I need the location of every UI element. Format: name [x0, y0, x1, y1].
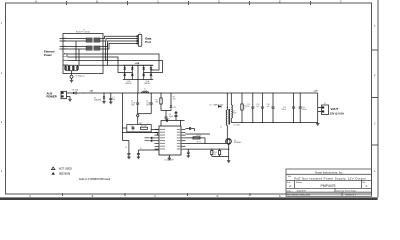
svg-text:C6: C6: [125, 147, 127, 149]
svg-text:C12: C12: [283, 107, 286, 109]
svg-text:12V @ 0.5A: 12V @ 0.5A: [330, 111, 344, 115]
svg-text:+VA: +VA: [89, 89, 93, 92]
svg-text:NOT USED: NOT USED: [59, 168, 72, 171]
svg-text:1.0uF: 1.0uF: [146, 103, 150, 105]
svg-text:C: C: [157, 1, 159, 4]
svg-text:Rev:: Rev:: [362, 182, 366, 184]
svg-text:Number:: Number:: [296, 181, 303, 184]
svg-text:C13: C13: [302, 107, 305, 109]
svg-text:D: D: [218, 1, 220, 4]
svg-text:Si4850EY: Si4850EY: [234, 142, 242, 144]
svg-text:10uH: 10uH: [143, 90, 148, 92]
svg-text:T2: T2: [220, 127, 222, 129]
svg-text:C7: C7: [140, 148, 142, 150]
svg-text:POWER: POWER: [47, 95, 57, 99]
svg-text:TD-: TD-: [64, 41, 67, 43]
svg-text:FB1: FB1: [139, 123, 142, 125]
svg-text:J1: J1: [139, 32, 141, 34]
svg-text:Sheet 1 of 1: Sheet 1 of 1: [346, 193, 356, 196]
svg-text:470pF: 470pF: [232, 112, 236, 114]
svg-text:39k: 39k: [156, 102, 159, 104]
svg-text:1.0: 1.0: [214, 154, 216, 156]
svg-text:D7: D7: [94, 97, 96, 99]
svg-text:1uF: 1uF: [267, 106, 270, 108]
svg-text:SEE BOM: SEE BOM: [59, 173, 70, 176]
svg-text:Port: Port: [145, 40, 151, 44]
svg-text:RD-: RD-: [64, 49, 67, 51]
svg-text:PoE Non-Isolated Power Supply,: PoE Non-Isolated Power Supply, 12V Outpu…: [294, 176, 366, 180]
svg-text:H2019-PT#-G54321: H2019-PT#-G54321: [76, 32, 90, 34]
svg-text:VOUT: VOUT: [331, 107, 339, 111]
svg-text:C15: C15: [256, 104, 259, 106]
svg-text:R12 100k: R12 100k: [141, 126, 147, 128]
svg-text:C14: C14: [247, 104, 250, 106]
svg-text:T1: T1: [83, 29, 85, 31]
svg-text:Texas Instruments, Inc.: Texas Instruments, Inc.: [315, 170, 344, 174]
svg-text:File: PMP4479_Beta2.DSN: File: PMP4479_Beta2.DSN: [287, 193, 311, 196]
svg-text:C8: C8: [169, 114, 171, 116]
svg-text:TD+: TD+: [64, 38, 67, 40]
svg-text:10k: 10k: [173, 99, 176, 101]
svg-text:C11: C11: [232, 111, 235, 113]
svg-text:T1 MagJack: T1 MagJack: [76, 76, 85, 78]
svg-text:1uF: 1uF: [113, 99, 116, 101]
svg-text:D5: D5: [210, 105, 212, 107]
svg-text:1.0uF: 1.0uF: [131, 103, 135, 105]
svg-text:Date:: Date:: [287, 189, 292, 192]
svg-text:built on 170308 PCB board: built on 170308 PCB board: [79, 177, 111, 181]
svg-text:Title:: Title:: [288, 175, 292, 178]
svg-text:1uF: 1uF: [256, 106, 259, 108]
svg-text:R6: R6: [156, 100, 158, 102]
svg-text:220uF: 220uF: [302, 109, 307, 111]
svg-text:220uF: 220uF: [281, 109, 286, 111]
svg-text:1uF: 1uF: [247, 106, 250, 108]
svg-text:C4: C4: [146, 101, 148, 103]
svg-text:C3: C3: [131, 101, 133, 103]
svg-text:+VB: +VB: [135, 63, 140, 65]
svg-text:A: A: [289, 184, 291, 188]
svg-text:C16: C16: [267, 104, 270, 106]
svg-text:R10: R10: [214, 152, 217, 154]
svg-text:R4 1k: R4 1k: [197, 135, 201, 137]
svg-text:C10: C10: [131, 126, 134, 128]
svg-text:R9 10: R9 10: [197, 142, 201, 144]
svg-text:R7: R7: [173, 97, 175, 99]
svg-text:PMP4479: PMP4479: [321, 184, 336, 188]
svg-text:Power: Power: [44, 53, 52, 57]
svg-text:10: 10: [244, 108, 246, 110]
svg-text:D6 S1A: D6 S1A: [72, 89, 79, 92]
svg-text:11/05/1999: 11/05/1999: [297, 190, 306, 192]
svg-text:100pF: 100pF: [169, 116, 174, 118]
svg-text:RD+: RD+: [64, 46, 67, 48]
svg-text:D8: D8: [174, 107, 176, 109]
svg-text:C1: C1: [113, 97, 115, 99]
svg-text:J2: J2: [324, 103, 326, 105]
svg-text:A: A: [366, 184, 368, 188]
svg-text:Drawn by: Pierre Guebs: Drawn by: Pierre Guebs: [336, 189, 356, 192]
svg-text:MBRS140T3: MBRS140T3: [214, 105, 224, 107]
svg-text:L2 15uH: L2 15uH: [234, 125, 241, 127]
